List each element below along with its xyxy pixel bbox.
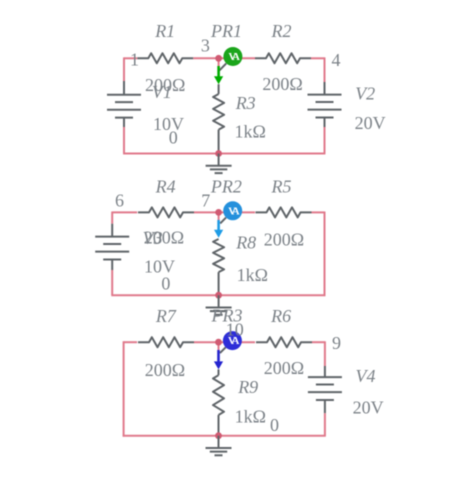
svg-text:1kΩ: 1kΩ: [235, 122, 266, 142]
label R3: [235, 93, 256, 113]
svg-text:6: 6: [115, 190, 124, 210]
value V3 10V: [144, 257, 175, 277]
wire bottom c2: [111, 294, 325, 296]
svg-text:200Ω: 200Ω: [264, 358, 304, 378]
probe PR1: [223, 47, 242, 66]
wire R6 to corner: [312, 341, 325, 366]
label R4: [155, 176, 176, 196]
wire left c3: [123, 341, 125, 436]
ground c1: [206, 154, 232, 174]
resistor R5: [256, 207, 312, 217]
battery V3: [95, 224, 129, 270]
label V4: [356, 366, 376, 386]
svg-text:200Ω: 200Ω: [264, 229, 304, 249]
node 9 label: [332, 333, 341, 353]
svg-text:200Ω: 200Ω: [262, 74, 302, 94]
value V2 20V: [355, 113, 386, 133]
svg-text:R7: R7: [155, 306, 177, 326]
wire node 3 to R2: [219, 57, 255, 59]
probe PR2: [223, 201, 242, 220]
value R3 1kohm: [235, 122, 266, 142]
wire V2 to bottom: [324, 127, 326, 154]
probe PR2 pointer: [220, 218, 226, 224]
label R7: [155, 306, 177, 326]
svg-text:R3: R3: [235, 93, 256, 113]
svg-text:9: 9: [332, 333, 341, 353]
junction node 10: [215, 339, 222, 346]
junction node 3: [215, 55, 222, 62]
ground c3: [206, 436, 232, 456]
svg-text:1kΩ: 1kΩ: [237, 265, 268, 285]
wire left c1: [123, 57, 125, 81]
svg-text:R5: R5: [271, 176, 292, 196]
label PR3: [211, 306, 243, 326]
wire node 10 to R6: [219, 341, 256, 343]
resistor R3: [213, 84, 224, 153]
wire V4 to bottom: [324, 413, 326, 436]
resistor R4: [138, 207, 194, 217]
value V1 10V: [153, 114, 184, 134]
wire bottom c3: [123, 435, 326, 437]
label PR1: [210, 21, 242, 41]
resistor R1: [137, 53, 193, 63]
svg-text:V3: V3: [143, 228, 163, 248]
svg-text:R6: R6: [270, 306, 291, 326]
wire V1 to bottom: [123, 127, 125, 154]
svg-text:20V: 20V: [355, 113, 386, 133]
value R1 200ohm: [145, 75, 185, 95]
svg-text:V1: V1: [152, 82, 172, 102]
label R2: [271, 21, 292, 41]
battery V2: [308, 82, 342, 127]
wire R5 to corner: [312, 212, 325, 297]
node 4 label: [332, 50, 341, 70]
battery V4: [308, 366, 342, 413]
probe PR3: [223, 331, 242, 350]
wire node10 stub: [218, 342, 220, 351]
label PR2: [210, 176, 242, 196]
svg-text:0: 0: [161, 274, 170, 294]
label R8: [235, 232, 256, 252]
battery V1: [107, 81, 141, 127]
probe PR1 pointer: [219, 63, 226, 70]
wire top-left c2: [112, 211, 137, 213]
wire R4 to node 7: [194, 211, 219, 213]
current arrow PR2: [214, 220, 223, 238]
svg-text:PR1: PR1: [210, 21, 242, 41]
wire R2 to corner: [311, 57, 325, 82]
resistor R6: [256, 337, 312, 347]
ground c2: [206, 295, 232, 315]
svg-text:R9: R9: [237, 377, 258, 397]
value R2 200ohm: [262, 74, 302, 94]
junction bottom c3: [215, 432, 222, 439]
junction node 7: [215, 209, 222, 216]
wire node 7 to R5: [219, 211, 255, 213]
svg-text:PR2: PR2: [210, 176, 242, 196]
label R5: [271, 176, 292, 196]
svg-text:7: 7: [201, 191, 210, 211]
current arrow PR3: [214, 350, 223, 369]
svg-text:4: 4: [332, 50, 341, 70]
wire V3 to bottom: [111, 270, 113, 295]
wire node7 stub: [218, 212, 220, 221]
node 3 label: [201, 36, 210, 56]
value R6 200ohm: [264, 358, 304, 378]
node 0 label c3: [270, 415, 279, 435]
label R1: [154, 21, 175, 41]
wire R7 to node 10: [194, 341, 219, 343]
node 1 label: [130, 50, 139, 70]
svg-text:V4: V4: [356, 366, 376, 386]
label R6: [270, 306, 291, 326]
node 10 label: [226, 320, 244, 340]
node 6 label: [115, 190, 124, 210]
value R8 1kohm: [237, 265, 268, 285]
value R9 1kohm: [235, 407, 266, 427]
label V1: [152, 82, 172, 102]
wire top-left c1: [124, 57, 137, 59]
label R9: [237, 377, 258, 397]
wire bottom c1: [123, 153, 325, 155]
wire left c2 top: [111, 212, 113, 224]
value R7 200ohm: [145, 360, 185, 380]
svg-text:1: 1: [130, 50, 139, 70]
node 0 label c2: [161, 274, 170, 294]
value V4 20V: [353, 398, 384, 418]
node 0 label c1: [169, 128, 178, 148]
label V2: [355, 84, 375, 104]
resistor R8: [213, 239, 224, 295]
value R5 200ohm: [264, 229, 304, 249]
svg-text:R2: R2: [271, 21, 292, 41]
svg-text:200Ω: 200Ω: [145, 360, 185, 380]
junction bottom c1: [215, 150, 222, 157]
svg-text:0: 0: [169, 128, 178, 148]
wire R1 to node 3: [193, 57, 218, 59]
wire top-left c3: [124, 341, 138, 343]
svg-text:10: 10: [226, 320, 244, 340]
svg-text:1kΩ: 1kΩ: [235, 407, 266, 427]
svg-text:V2: V2: [355, 84, 375, 104]
node 7 label: [201, 191, 210, 211]
svg-text:R4: R4: [155, 176, 176, 196]
probe PR3 pointer: [220, 347, 226, 353]
value R4 200ohm: [144, 228, 184, 248]
svg-text:0: 0: [270, 415, 279, 435]
wire node3 stub: [218, 58, 220, 67]
svg-text:3: 3: [201, 36, 210, 56]
resistor R2: [255, 53, 311, 63]
svg-text:20V: 20V: [353, 398, 384, 418]
current arrow PR1: [214, 66, 223, 84]
label V3: [143, 228, 163, 248]
svg-text:R1: R1: [154, 21, 175, 41]
resistor R7: [138, 337, 194, 347]
junction bottom c2: [215, 292, 222, 299]
resistor R9: [213, 369, 224, 435]
svg-text:R8: R8: [235, 232, 256, 252]
